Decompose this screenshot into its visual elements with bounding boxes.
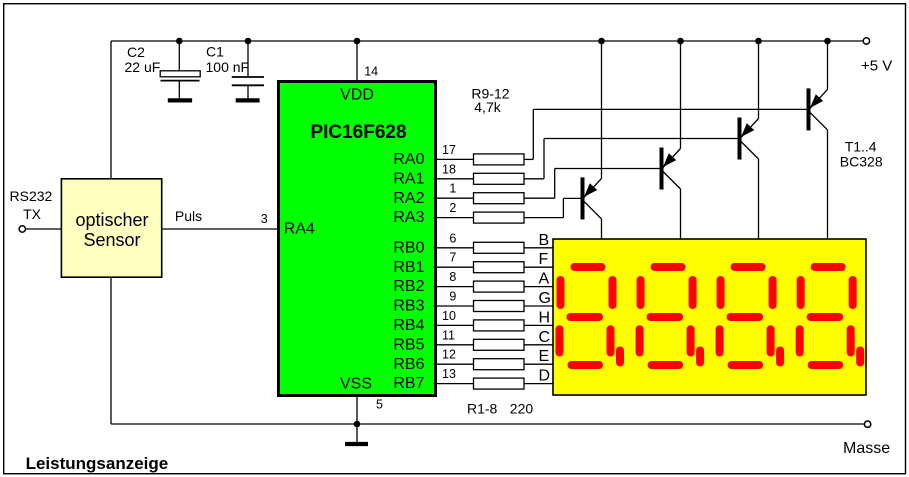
svg-text:RB2: RB2 [393,278,424,295]
resistor R1 220 [474,242,525,253]
wire R5 to display segment H [524,324,554,326]
node rail-C2 junction [176,38,183,45]
wire RS232 to sensor [26,228,62,230]
node VSS-rail junction [354,421,361,428]
wire +5V top rail [111,40,863,42]
resistor R12 4,7k [474,212,525,223]
svg-text:+5 V: +5 V [861,58,892,75]
node rail-T3 emitter junction [755,38,762,45]
svg-text:2: 2 [449,201,456,215]
resistor R10 4,7k [474,173,525,184]
svg-text:BC328: BC328 [840,153,883,169]
svg-text:RS232: RS232 [10,188,53,204]
svg-text:RB4: RB4 [393,317,424,334]
svg-text:7: 7 [449,251,456,265]
7-segment digit 1 (all segments lit) [560,267,621,365]
wire jog vertical up to T4 base level [532,109,534,159]
svg-text:RB6: RB6 [393,356,424,373]
svg-text:RA2: RA2 [393,190,424,207]
transistor T1 BC328 [563,41,601,240]
svg-text:14: 14 [364,65,378,79]
op-amp U1 PIC16F628 microcontroller body [279,82,436,396]
svg-text:Leistungsanzeige: Leistungsanzeige [26,454,169,473]
resistor R4 220 [474,301,525,312]
terminal RS232 TX input [19,226,25,232]
svg-text:B: B [539,232,550,249]
svg-text:PIC16F628: PIC16F628 [310,122,406,143]
7-segment display module body [553,239,866,395]
svg-text:RA3: RA3 [393,209,424,226]
svg-text:optischer: optischer [75,210,148,230]
svg-text:R1-8: R1-8 [467,401,498,417]
terminal Masse [864,421,870,427]
wire pin 9 (RB3) to resistor R4 [435,305,474,307]
svg-text:RB1: RB1 [393,259,424,276]
svg-text:Masse: Masse [843,440,890,457]
svg-text:RB7: RB7 [393,375,424,392]
wire R8 to display segment D [524,383,554,385]
wire VSS pin 5 to ground rail [356,395,358,424]
wire R11 to base jog [524,197,555,199]
wire R3 to display segment A [524,286,554,288]
svg-text:5: 5 [376,397,383,411]
wire pin 7 (RB1) to resistor R2 [435,266,474,268]
svg-text:T1..4: T1..4 [845,139,877,155]
ground symbol at VSS [345,442,368,446]
wire VDD pin 14 from rail [356,41,358,82]
svg-text:VSS: VSS [340,376,372,393]
resistor R2 220 [474,262,525,273]
transistor T4 BC328 [533,41,827,240]
svg-text:4,7k: 4,7k [474,99,501,115]
optical sensor box [61,179,161,277]
wire pin 11 (RB5) to resistor R6 [435,344,474,346]
resistor R5 220 [474,320,525,331]
wire R6 to display segment C [524,344,554,346]
resistor R7 220 [474,359,525,370]
7-segment digit 4 (all segments lit) [800,267,861,365]
wire R10 to base jog [524,178,544,180]
svg-text:H: H [539,309,551,326]
svg-text:G: G [539,290,551,307]
transistor T2 BC328 [555,41,681,240]
wire rail to C1 [247,41,249,76]
svg-text:10: 10 [442,309,456,323]
resistor R9 4,7k [474,154,525,165]
resistor R11 4,7k [474,193,525,204]
wire pin 18 (RA1) to resistor R10 [435,178,474,180]
terminal +5V [863,38,869,44]
svg-text:12: 12 [442,348,456,362]
wire pin 13 (RB7) to resistor R8 [435,383,474,385]
svg-text:1: 1 [449,182,456,196]
7-segment digit 3 (all segments lit) [720,267,781,365]
svg-text:11: 11 [442,328,455,342]
node rail-T2 emitter junction [677,38,684,45]
wire jog vertical up to T2 base level [554,169,556,199]
svg-text:18: 18 [442,162,456,176]
svg-text:Puls: Puls [175,208,202,224]
ground symbol under C2 [168,98,192,102]
wire R9 to base jog [524,158,533,160]
svg-text:RB3: RB3 [393,298,424,315]
wire pin 1 (RA2) to resistor R11 [435,197,474,199]
node rail-T4 emitter junction [824,38,831,45]
wire pin 2 (RA3) to resistor R12 [435,217,474,219]
wire R1 to display segment B [524,247,554,249]
7-segment digit 2 (all segments lit) [640,267,701,365]
svg-text:17: 17 [442,143,456,157]
svg-text:C1: C1 [206,44,224,60]
transistor T3 BC328 [544,41,759,240]
svg-text:3: 3 [261,212,268,226]
ground symbol under C1 [236,98,260,102]
wire Puls: sensor to RA4 pin 3 [162,228,279,230]
wire rail to C2 [178,41,180,71]
wire pin 10 (RB4) to resistor R5 [435,324,474,326]
svg-text:C: C [539,329,551,346]
wire pin 12 (RB6) to resistor R7 [435,363,474,365]
svg-text:TX: TX [23,206,42,222]
wire sensor bottom to ground rail [110,277,112,424]
svg-text:220: 220 [510,401,534,417]
svg-text:9: 9 [449,290,456,304]
svg-text:6: 6 [449,231,456,245]
svg-text:VDD: VDD [340,86,374,103]
capacitor C2 (electrolytic 22 uF) [160,71,200,99]
svg-text:RA4: RA4 [284,221,315,238]
wire R4 to display segment G [524,305,554,307]
node rail-VDD junction [354,38,361,45]
node rail-C1 junction [245,38,252,45]
svg-text:A: A [539,271,550,288]
svg-text:D: D [539,368,551,385]
svg-text:RB5: RB5 [393,336,424,353]
wire VSS junction to ground [356,424,358,442]
wire Masse bottom rail [111,423,864,425]
resistor R6 220 [474,339,525,350]
resistor R8 220 [474,378,525,389]
svg-text:RA1: RA1 [393,170,424,187]
svg-text:F: F [539,251,549,268]
capacitor C1 (100 nF) [232,77,264,98]
svg-text:RA0: RA0 [393,151,424,168]
wire jog vertical up to T1 base level [562,198,564,217]
wire left drop from +5V rail to sensor top [110,41,112,179]
svg-text:Sensor: Sensor [83,230,140,250]
svg-text:22 uF: 22 uF [125,59,161,75]
wire pin 17 (RA0) to resistor R9 [435,158,474,160]
wire R7 to display segment E [524,363,554,365]
wire jog vertical up to T3 base level [543,139,545,179]
node rail-T1 emitter junction [598,38,605,45]
wire pin 8 (RB2) to resistor R3 [435,286,474,288]
svg-text:13: 13 [442,367,456,381]
resistor R3 220 [474,281,525,292]
svg-text:RB0: RB0 [393,239,424,256]
wire R2 to display segment F [524,266,554,268]
svg-text:8: 8 [449,270,456,284]
wire R12 to base jog [524,217,563,219]
svg-text:E: E [539,348,550,365]
wire pin 6 (RB0) to resistor R1 [435,247,474,249]
svg-text:100 nF: 100 nF [206,59,250,75]
svg-text:C2: C2 [127,44,145,60]
